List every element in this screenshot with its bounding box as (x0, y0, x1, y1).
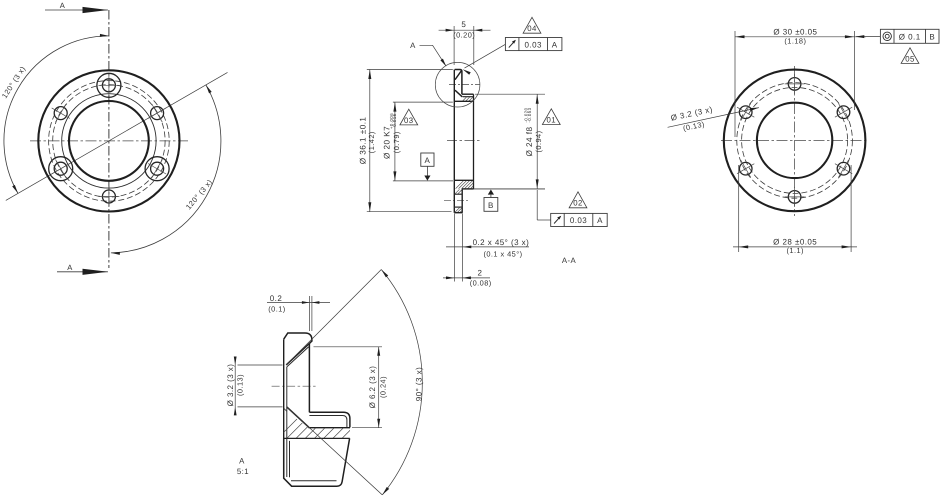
svg-text:A: A (597, 216, 603, 225)
bore top edge (454, 100, 473, 102)
detail circle A (435, 62, 480, 107)
dashed circle D31 (49, 81, 170, 202)
sheet inner left edge (286, 367, 288, 477)
svg-text:A: A (60, 1, 66, 10)
flag 02 (569, 192, 587, 208)
svg-text:(0.94): (0.94) (534, 130, 543, 152)
vertical centerline (794, 66, 796, 216)
countersink face lower (thick) (287, 407, 309, 427)
flag 05 (901, 48, 919, 64)
arm bottom edge (309, 427, 351, 429)
hole at 210 deg (54, 162, 67, 175)
hole at 210 deg (right view) (739, 162, 752, 175)
flag 03 (400, 109, 418, 125)
rim bottom edge (455, 212, 463, 214)
dimension 2 bottom (sheet thickness) (454, 214, 456, 282)
bore bottom edge (454, 179, 473, 181)
svg-text:05: 05 (905, 54, 915, 63)
hatch lower boss wall (456, 181, 464, 189)
svg-text:04: 04 (527, 24, 537, 33)
svg-text:(0.1 x 45°): (0.1 x 45°) (483, 249, 522, 258)
svg-text:(1.18): (1.18) (784, 37, 806, 46)
angle dimension arc 120deg lower-right (111, 85, 221, 253)
svg-text:-0.053: -0.053 (527, 107, 532, 122)
horizontal centerline (721, 139, 868, 141)
svg-text:02: 02 (573, 199, 583, 208)
bolt circle dashed D28 (53, 85, 165, 197)
svg-text:A: A (425, 156, 431, 165)
boss end face (473, 94, 475, 189)
feature control frame 02 (runout 0.03 A) right (551, 213, 608, 226)
svg-text:Ø 0.1: Ø 0.1 (899, 33, 921, 42)
hole at 270 deg (102, 190, 115, 203)
web front face / bar right edge (308, 343, 310, 412)
svg-text:0.03: 0.03 (570, 216, 587, 225)
svg-text:0.2 x 45° (3 x): 0.2 x 45° (3 x) (473, 238, 530, 247)
rim lip top edge (455, 70, 462, 95)
boss circle D24 (62, 94, 156, 188)
arm outline outer (309, 412, 350, 427)
bore circle D20 (69, 101, 149, 181)
bore circle (757, 103, 832, 178)
svg-text:A: A (410, 41, 416, 50)
hatch between boss and bottom hole (455, 189, 460, 194)
svg-text:B: B (929, 33, 935, 42)
hole at 90 deg (102, 79, 115, 92)
leader frame 02 to D24 dimension (537, 219, 551, 221)
svg-text:5: 5 (461, 20, 466, 29)
bottom hole D3.2 walls (454, 193, 462, 195)
svg-text:A: A (239, 456, 245, 465)
svg-text:A: A (552, 40, 558, 49)
svg-text:A: A (67, 263, 73, 272)
axis centerline (447, 140, 481, 142)
horizontal centerline (30, 140, 188, 142)
outer circle D36.1 (38, 70, 179, 211)
leader frame 05 to D30 extension (856, 36, 880, 38)
hole at 270 deg (right view) (788, 191, 801, 204)
leader D3.2 holes (slanted label) (668, 108, 759, 128)
svg-text:5:1: 5:1 (237, 467, 249, 476)
arm inner line (309, 416, 347, 428)
90 degree arc (381, 270, 422, 495)
svg-text:(0.20): (0.20) (453, 30, 475, 39)
boss top surface D24 (462, 93, 474, 95)
90 degree countersink dimension lines (286, 270, 381, 365)
angle dimension arc 120deg left (4, 36, 109, 194)
hole at 30 deg (151, 107, 164, 120)
svg-text:Ø 30 ±0.05: Ø 30 ±0.05 (773, 28, 817, 37)
leader from frame 04 to rim face (465, 44, 506, 68)
feature control frame 05 (concentricity D0.1 B) (880, 29, 939, 43)
dimension D20 K7 (393, 101, 453, 103)
svg-text:-0.015: -0.015 (392, 113, 397, 128)
hole mouth chamfer (284, 408, 287, 411)
svg-text:Ø 3.2 (3 x): Ø 3.2 (3 x) (226, 364, 235, 407)
block body outline (284, 438, 350, 486)
datum A symbol (421, 153, 434, 166)
hole at 150 deg (54, 107, 67, 120)
countersink face upper (thick) (286, 343, 309, 365)
dashed circle D28 (742, 87, 848, 193)
section line A-A (vertical dash-dot) (108, 10, 110, 268)
svg-text:0.2: 0.2 (270, 294, 283, 303)
svg-text:(0.79): (0.79) (392, 131, 401, 153)
block inner lines (289, 441, 291, 477)
dimension D24 f8 (475, 93, 545, 95)
hatch below bottom hole (455, 207, 460, 212)
dimension 0.2 top of detail (308, 296, 310, 331)
hatch top boss wall (463, 97, 467, 101)
svg-text:(1.1): (1.1) (786, 246, 803, 255)
left face of web (453, 70, 455, 213)
flag 04 (523, 17, 541, 33)
hole at 150 deg (right view) (739, 106, 752, 119)
feature control frame 04 (runout 0.03 A) top (505, 38, 562, 51)
svg-text:A-A: A-A (562, 256, 577, 265)
svg-text:90° (3 x): 90° (3 x) (415, 367, 424, 401)
boss bottom surface D24 / datum B line (462, 188, 545, 190)
dimension D3.2 detail (238, 364, 283, 366)
svg-text:(0.24): (0.24) (379, 376, 388, 398)
countersink face upper inner (sheet) (287, 347, 309, 367)
dashed circle D30 (737, 83, 853, 199)
svg-text:B: B (488, 201, 494, 210)
web front face lower (461, 189, 463, 213)
svg-text:Ø 24 f8: Ø 24 f8 (525, 126, 534, 156)
svg-text:Ø 20 K7: Ø 20 K7 (383, 126, 392, 159)
detail centerline (272, 385, 318, 387)
svg-text:Ø 6.2 (3 x): Ø 6.2 (3 x) (368, 366, 377, 409)
svg-text:(0.08): (0.08) (470, 279, 492, 288)
top hole centerline (449, 84, 480, 86)
dimension 5 top (453, 26, 455, 65)
dimension D28 bottom (738, 165, 740, 252)
chamfer dimension 0.2 x 45 (446, 246, 529, 248)
hole at 330 deg (151, 162, 164, 175)
bottom hole centerline (444, 200, 469, 202)
boss chamfer line top (463, 96, 474, 98)
diagonal centerline through 30deg/210deg holes (6, 72, 228, 200)
dimension D36.1 (367, 69, 453, 71)
dimension D6.2 detail (314, 346, 383, 348)
svg-text:03: 03 (404, 116, 414, 125)
svg-text:2: 2 (478, 269, 483, 278)
datum B symbol (488, 190, 494, 195)
lip cross-section outline (top cap) (284, 333, 312, 343)
svg-text:(0.1): (0.1) (268, 304, 285, 313)
cutting-plane arrow bottom (57, 271, 108, 273)
hole at 90 deg (right view) (788, 78, 801, 91)
countersink upper diagonal (455, 70, 462, 80)
lip left outer edge (283, 339, 285, 478)
svg-text:(1.42): (1.42) (367, 131, 376, 153)
hatch band bottom line (284, 437, 350, 439)
svg-text:(0.13): (0.13) (236, 374, 245, 396)
flag 01 (542, 109, 560, 125)
cutting-plane arrow top (45, 9, 108, 11)
countersink lower diagonal (455, 90, 462, 97)
svg-text:0.03: 0.03 (525, 40, 542, 49)
svg-text:01: 01 (547, 115, 557, 124)
hole at 330 deg (right view) (837, 162, 850, 175)
dimension D30 top (734, 31, 736, 137)
outer circle (724, 70, 866, 212)
hole at 30 deg (right view) (837, 106, 850, 119)
